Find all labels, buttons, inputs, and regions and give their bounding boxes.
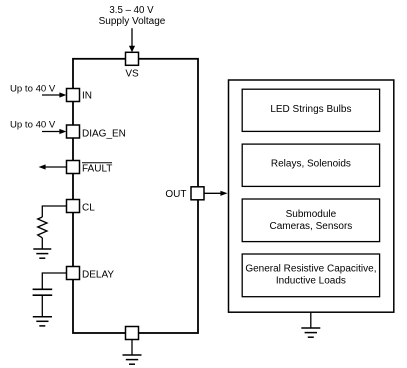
- ground (loads box): [301, 328, 320, 337]
- wire from DELAY to capacitor: [42, 273, 66, 289]
- svg-text:Relays, Solenoids: Relays, Solenoids: [271, 158, 351, 169]
- wire from resistor to ground: [41, 238, 43, 249]
- ground (main block): [123, 355, 142, 364]
- input arrow into IN: [42, 92, 66, 97]
- capacitor C1 (delay set): [33, 289, 53, 295]
- pin OUT: [165, 187, 204, 200]
- Up to 40 V label (IN): [10, 83, 56, 94]
- pin CL: [67, 200, 96, 214]
- ground (DELAY capacitor): [33, 317, 52, 326]
- svg-text:General Resistive Capacitive,: General Resistive Capacitive,: [245, 264, 376, 275]
- pin DELAY: [67, 267, 115, 281]
- ground (CL resistor): [33, 249, 51, 258]
- svg-text:IN: IN: [82, 91, 92, 102]
- pin GND (bottom): [126, 327, 139, 340]
- wire from loads box to ground: [310, 312, 312, 328]
- svg-text:DIAG_EN: DIAG_EN: [82, 128, 126, 139]
- Up to 40 V label (DIAG_EN): [10, 120, 56, 131]
- loads box (outer): [229, 80, 394, 312]
- pin FAULT (active low): [67, 161, 113, 175]
- supply voltage value label: [99, 5, 166, 27]
- svg-text:DELAY: DELAY: [82, 269, 114, 280]
- load block: Relays, Solenoids: [242, 144, 379, 186]
- svg-text:OUT: OUT: [165, 189, 186, 200]
- main block U1 (high-side switch): [73, 59, 198, 333]
- svg-text:FAULT: FAULT: [82, 163, 112, 174]
- output arrow from OUT to load box: [204, 191, 228, 196]
- load block: Submodule Cameras, Sensors: [242, 199, 379, 242]
- svg-text:Cameras, Sensors: Cameras, Sensors: [269, 221, 352, 232]
- pin DIAG_EN: [67, 125, 126, 139]
- svg-text:3.5 – 40 V: 3.5 – 40 V: [109, 5, 154, 16]
- pin VS: [125, 52, 139, 79]
- svg-text:Supply Voltage: Supply Voltage: [99, 16, 166, 27]
- svg-text:Up to 40 V: Up to 40 V: [10, 120, 56, 131]
- load block: General Resistive Capacitive, Inductive Loads: [242, 254, 379, 297]
- wire from GND pin to ground: [131, 340, 133, 356]
- wire from CL to resistor: [42, 206, 66, 217]
- supply input arrow into VS: [129, 28, 135, 52]
- svg-text:Inductive Loads: Inductive Loads: [276, 276, 346, 287]
- load block: LED Strings Bulbs: [242, 89, 379, 131]
- output arrow from FAULT: [39, 164, 67, 169]
- svg-text:VS: VS: [125, 69, 139, 80]
- svg-text:CL: CL: [82, 202, 95, 213]
- wire from capacitor to ground: [41, 295, 43, 317]
- svg-text:LED Strings Bulbs: LED Strings Bulbs: [270, 104, 351, 115]
- svg-text:Submodule: Submodule: [286, 209, 337, 220]
- input arrow into DIAG_EN: [42, 129, 66, 134]
- svg-text:Up to 40 V: Up to 40 V: [10, 83, 56, 94]
- pin IN: [67, 89, 93, 102]
- resistor R1 (current limit set): [38, 217, 47, 238]
